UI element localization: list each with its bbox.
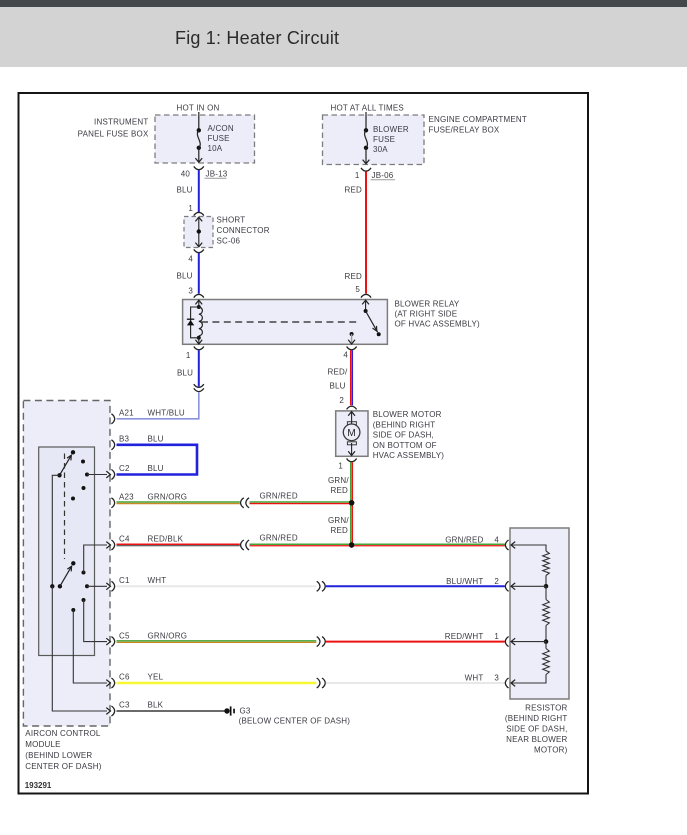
wire speed switch to pin C5 — [84, 600, 107, 642]
connector arc at relay pin 4 — [347, 347, 357, 350]
wire speed switch to pin C1 — [87, 585, 107, 587]
svg-text:M: M — [347, 428, 355, 439]
svg-text:GRN/RED: GRN/RED — [260, 491, 298, 500]
svg-text:BLU: BLU — [148, 435, 164, 444]
svg-text:RED: RED — [345, 272, 363, 281]
svg-text:10A: 10A — [208, 144, 223, 153]
svg-text:NEAR BLOWER: NEAR BLOWER — [506, 735, 567, 744]
svg-text:C6: C6 — [119, 673, 130, 682]
svg-text:HOT AT ALL TIMES: HOT AT ALL TIMES — [331, 104, 404, 113]
svg-text:GRN/: GRN/ — [328, 516, 349, 525]
mode selector switch (top) — [71, 450, 75, 454]
svg-text:CENTER OF DASH): CENTER OF DASH) — [25, 762, 101, 771]
relay mechanical dashed link — [201, 321, 358, 323]
relay pin 1 internal arrow — [198, 338, 200, 344]
pin C1 — [111, 581, 114, 591]
svg-text:FUSE/RELAY BOX: FUSE/RELAY BOX — [429, 126, 500, 135]
wire WHT from C1 — [117, 585, 317, 587]
resistor node pin 2 — [544, 584, 549, 589]
inline connector C1 row — [317, 581, 320, 591]
aircon control module dashed box — [23, 401, 110, 727]
wire WHT/BLU to module pin A21 — [117, 392, 199, 419]
wire GRN/RED junction node B to resistor pin 4 — [250, 543, 505, 545]
short connector SC-06 box — [184, 217, 213, 248]
svg-text:(BEHIND LOWER: (BEHIND LOWER — [25, 751, 92, 760]
svg-text:4: 4 — [494, 536, 499, 545]
svg-text:RED: RED — [345, 186, 363, 195]
wire BLU jumper B3 to C2 — [117, 445, 198, 475]
svg-text:Fig 1: Heater Circuit: Fig 1: Heater Circuit — [175, 28, 339, 48]
blower motor box — [336, 411, 368, 456]
svg-text:JB-06: JB-06 — [372, 171, 394, 180]
svg-text:(BEHIND RIGHT: (BEHIND RIGHT — [505, 714, 568, 723]
svg-text:A/CON: A/CON — [208, 124, 234, 133]
inline connector C4 row — [241, 540, 244, 550]
relay diode triangle — [187, 320, 194, 325]
svg-text:INSTRUMENT: INSTRUMENT — [94, 118, 148, 127]
svg-text:BLOWER: BLOWER — [373, 125, 409, 134]
svg-text:YEL: YEL — [148, 673, 164, 682]
pin C6 — [111, 678, 114, 688]
resistor element 3 — [545, 642, 547, 649]
svg-text:4: 4 — [188, 255, 193, 264]
resistor element 1 — [543, 551, 550, 576]
wire RED from JB-06 to relay pin 5 — [365, 172, 367, 294]
switch mechanical dashed link — [64, 454, 66, 560]
wire switch pivots common — [52, 475, 59, 586]
svg-text:HVAC ASSEMBLY): HVAC ASSEMBLY) — [373, 451, 445, 460]
ground G3 — [224, 708, 229, 713]
svg-text:4: 4 — [343, 351, 348, 360]
wire BLU from JB-13 to SC-06 — [198, 170, 200, 212]
header gray title bar — [0, 7, 687, 67]
wire GRN/ORG from A23 — [117, 501, 240, 503]
wire RED/WHT to resistor pin 1 — [326, 641, 505, 643]
svg-text:PANEL FUSE BOX: PANEL FUSE BOX — [78, 130, 149, 139]
wire GRN/ORG from C5 — [117, 640, 317, 642]
svg-text:A21: A21 — [119, 409, 134, 418]
wire pin C4 to speed switch — [84, 545, 107, 573]
connector arc at resistor pin 1 — [505, 637, 508, 647]
svg-text:BLU: BLU — [330, 382, 346, 391]
inline connector C6 row — [317, 678, 320, 688]
svg-text:1: 1 — [188, 204, 193, 213]
svg-text:RED: RED — [331, 526, 349, 535]
diagram border frame — [19, 93, 589, 794]
svg-text:30A: 30A — [373, 145, 388, 154]
header dark top bar — [0, 0, 687, 7]
svg-text:GRN/ORG: GRN/ORG — [148, 631, 188, 640]
wire YEL from C6 — [117, 682, 317, 684]
svg-text:2: 2 — [339, 396, 344, 405]
junction node B overpaint — [349, 542, 354, 547]
svg-text:SIDE OF DASH,: SIDE OF DASH, — [506, 725, 567, 734]
wire GRN/RED from motor pin 1 to junctions — [350, 462, 352, 544]
svg-text:1: 1 — [338, 461, 343, 470]
svg-text:3: 3 — [188, 287, 193, 296]
svg-text:BLU: BLU — [177, 186, 193, 195]
svg-text:SHORT: SHORT — [217, 216, 246, 225]
svg-text:OF HVAC ASSEMBLY): OF HVAC ASSEMBLY) — [395, 320, 480, 329]
resistor element 2 — [545, 586, 547, 599]
svg-text:RED/WHT: RED/WHT — [445, 632, 484, 641]
svg-text:GRN/RED: GRN/RED — [445, 536, 483, 545]
connector arc at relay pin 3 — [194, 294, 204, 297]
svg-text:40: 40 — [181, 170, 191, 179]
svg-text:RED/BLK: RED/BLK — [148, 535, 184, 544]
wire BLU from relay pin 1 — [198, 350, 200, 386]
resistor internal pin 4 lead — [511, 542, 515, 549]
svg-text:SIDE OF DASH,: SIDE OF DASH, — [373, 431, 434, 440]
pin A21 — [111, 414, 114, 424]
wire BLK from C3 to ground — [117, 710, 225, 712]
inline connector blue to wht/blu — [194, 384, 204, 387]
svg-text:MODULE: MODULE — [25, 740, 60, 749]
connector JB-13 — [194, 166, 204, 169]
svg-text:C1: C1 — [119, 576, 130, 585]
svg-text:3: 3 — [494, 674, 499, 683]
svg-text:(AT RIGHT SIDE: (AT RIGHT SIDE — [395, 310, 458, 319]
relay switch blade — [364, 309, 368, 313]
connector JB-06 — [361, 168, 371, 171]
pin C3 — [111, 706, 114, 716]
svg-text:RESISTOR: RESISTOR — [525, 704, 567, 713]
engine compartment fuse/relay box — [323, 115, 425, 165]
svg-text:G3: G3 — [240, 706, 251, 715]
resistor internal pin 3 lead — [511, 675, 546, 684]
connector arc at motor pin 1 — [347, 459, 357, 462]
wire WHT to resistor pin 3 — [326, 682, 505, 684]
wire switch common to pin C3 — [52, 586, 107, 711]
resistor box — [510, 528, 569, 699]
inline connector C5 row — [317, 637, 320, 647]
svg-text:ENGINE COMPARTMENT: ENGINE COMPARTMENT — [429, 115, 527, 124]
relay diode branch — [191, 307, 199, 338]
svg-text:1: 1 — [494, 632, 499, 641]
svg-text:2: 2 — [494, 577, 499, 586]
connector arc at resistor pin 4 — [505, 540, 508, 550]
svg-text:C4: C4 — [119, 535, 130, 544]
svg-text:(BELOW CENTER OF DASH): (BELOW CENTER OF DASH) — [239, 716, 351, 725]
svg-text:WHT: WHT — [148, 576, 167, 585]
svg-text:BLK: BLK — [148, 701, 164, 710]
pin C4 — [111, 540, 114, 550]
svg-text:ON BOTTOM OF: ON BOTTOM OF — [373, 441, 437, 450]
svg-text:BLU: BLU — [177, 272, 193, 281]
wire RED/BLK from C4 — [117, 543, 240, 545]
svg-text:1: 1 — [186, 351, 191, 360]
svg-text:BLU: BLU — [148, 464, 164, 473]
svg-text:JB-13: JB-13 — [206, 170, 228, 179]
resistor node pin 1 — [544, 639, 549, 644]
svg-text:BLU/WHT: BLU/WHT — [446, 577, 483, 586]
motor circle M — [343, 424, 360, 441]
svg-text:BLU: BLU — [177, 369, 193, 378]
blower speed switch (bottom) — [50, 584, 54, 588]
fuse A/CON 10A — [197, 128, 201, 132]
connector arc at relay pin 5 — [361, 294, 371, 297]
wire BLU/WHT to resistor pin 2 — [326, 585, 505, 587]
relay pin 3 internal arrow — [195, 300, 202, 304]
svg-text:A23: A23 — [119, 493, 134, 502]
svg-text:BLOWER MOTOR: BLOWER MOTOR — [373, 410, 442, 419]
wire hot-at-all-times stub — [365, 112, 367, 130]
svg-text:MOTOR): MOTOR) — [534, 746, 568, 755]
inline connector A23 row — [241, 498, 244, 508]
svg-text:GRN/RED: GRN/RED — [260, 534, 298, 543]
junction node B — [349, 542, 354, 547]
svg-text:HOT IN ON: HOT IN ON — [177, 104, 220, 113]
blower relay box — [183, 300, 388, 345]
svg-text:FUSE: FUSE — [373, 135, 395, 144]
svg-text:GRN/ORG: GRN/ORG — [148, 493, 188, 502]
wire hot-in-on stub — [198, 112, 200, 130]
connector arc above SC-06 — [194, 212, 204, 215]
connector arc below SC-06 — [194, 249, 204, 252]
pin C5 — [111, 637, 114, 647]
svg-text:(BEHIND RIGHT: (BEHIND RIGHT — [373, 420, 436, 429]
wire BLU from SC-06 to relay pin 3 — [198, 253, 200, 294]
svg-text:GRN/: GRN/ — [328, 476, 349, 485]
relay pin 4 contact — [350, 332, 354, 336]
pin A23 — [111, 498, 114, 508]
connector arc at motor pin 2 — [347, 406, 357, 409]
module inner switch box — [39, 447, 95, 656]
wire mode switch to pin C2 — [87, 474, 107, 476]
svg-text:1: 1 — [355, 171, 360, 180]
pin C2 — [111, 470, 114, 480]
junction node A — [349, 500, 354, 505]
svg-text:RED: RED — [331, 486, 349, 495]
svg-text:SC-06: SC-06 — [217, 237, 241, 246]
svg-text:WHT/BLU: WHT/BLU — [148, 409, 185, 418]
svg-text:C5: C5 — [119, 631, 130, 640]
connector arc at relay pin 1 — [194, 347, 204, 350]
svg-text:WHT: WHT — [465, 674, 484, 683]
svg-text:CONNECTOR: CONNECTOR — [217, 226, 270, 235]
SC-06 internal link — [195, 217, 202, 221]
svg-text:193291: 193291 — [25, 781, 52, 790]
wire speed switch to pin C6 — [73, 610, 107, 683]
svg-text:RED/: RED/ — [328, 368, 348, 377]
connector arc at resistor pin 2 — [505, 581, 508, 591]
svg-text:B3: B3 — [119, 435, 130, 444]
connector arc at resistor pin 3 — [505, 678, 508, 688]
relay coil — [197, 305, 201, 309]
fuse BLOWER 30A — [364, 128, 368, 132]
wire RED/BLU from relay pin 4 to blower motor — [350, 350, 352, 405]
relay pin 5 internal arrow — [362, 300, 369, 304]
motor internal arrows and symbol — [348, 412, 355, 416]
pin B3 — [111, 440, 114, 450]
wire GRN/RED to junction node A — [250, 501, 352, 503]
svg-text:FUSE: FUSE — [208, 134, 230, 143]
svg-text:BLOWER RELAY: BLOWER RELAY — [395, 299, 460, 308]
junction node A overpaint — [349, 500, 354, 505]
instrument panel fuse box — [155, 115, 255, 163]
svg-text:AIRCON CONTROL: AIRCON CONTROL — [25, 729, 101, 738]
svg-text:C3: C3 — [119, 701, 130, 710]
svg-text:5: 5 — [355, 285, 360, 294]
svg-text:C2: C2 — [119, 464, 130, 473]
